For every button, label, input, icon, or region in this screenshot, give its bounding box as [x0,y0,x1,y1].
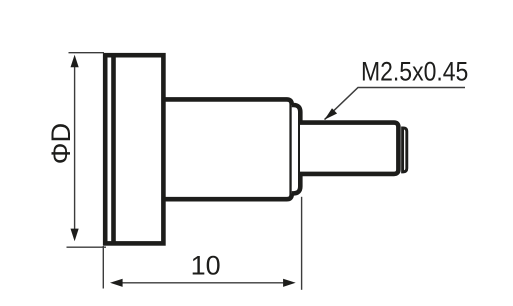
flange disc outline [105,55,163,243]
crimp rim cap [292,105,301,193]
dimension line 10 horizontal [122,282,285,284]
leader line to thread [325,88,466,120]
arrowhead PhiD bottom [71,229,79,242]
arrowhead 10 left [110,279,123,287]
arrowhead 10 right [283,279,296,287]
arrowhead PhiD top [71,55,79,68]
leader arrowhead [325,108,338,119]
extension line 10 left vertical [102,246,104,289]
extension line bottom (flange bottom) [67,246,107,248]
svg-text:M2.5x0.45: M2.5x0.45 [361,56,468,86]
transducer body outline [162,99,292,199]
dimension line PhiD vertical [74,66,76,230]
extension line 10 right vertical [301,197,303,290]
svg-text:10: 10 [191,251,221,281]
extension line top (flange top) [69,52,105,54]
threaded stub M2.5 [300,123,398,174]
flange face step line [111,53,116,245]
svg-text:ΦD: ΦD [45,123,76,164]
stub tip cap [403,128,407,172]
